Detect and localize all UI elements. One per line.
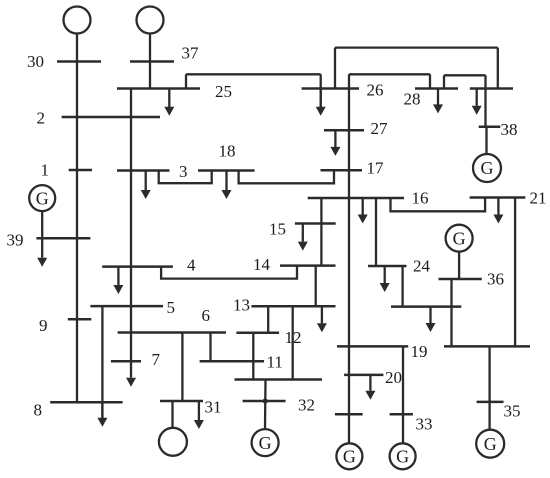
generator circle G32: [252, 429, 279, 456]
svg-text:4: 4: [187, 256, 196, 275]
wire 31 generator stem: [171, 401, 173, 428]
svg-text:7: 7: [152, 350, 161, 369]
svg-text:30: 30: [27, 52, 44, 71]
wire 28 riser: [443, 75, 445, 88]
svg-text:G: G: [343, 447, 356, 467]
bus 16 bar: [308, 197, 404, 200]
wire 25-26 horizontal: [186, 73, 321, 75]
wire 13-10 vertical: [292, 306, 294, 379]
load arrow at bus 18: [225, 171, 227, 191]
wire 22-35 vertical: [488, 346, 490, 429]
bus 20 bar: [344, 374, 383, 377]
svg-text:13: 13: [233, 296, 250, 315]
bus 26 bar: [302, 87, 359, 90]
bus 18 bar: [198, 169, 255, 172]
bus 7 bar: [111, 360, 141, 363]
bus 17 bar: [321, 169, 363, 172]
bus 15 bar: [295, 222, 336, 225]
wire 6-11 vertical: [209, 333, 211, 362]
svg-text:14: 14: [253, 255, 271, 274]
load arrow at bus 28: [437, 89, 439, 105]
bus 29 bar: [470, 87, 513, 90]
load arrow at bus 39: [41, 238, 43, 257]
bus 6 bar: [118, 331, 226, 334]
svg-text:19: 19: [411, 342, 428, 361]
load arrow at bus 4: [117, 267, 119, 285]
load arrow at bus 3: [145, 171, 147, 191]
generator circle G36: [446, 225, 473, 252]
svg-text:33: 33: [416, 415, 433, 434]
bus 11 bar: [200, 360, 265, 363]
svg-text:5: 5: [167, 298, 176, 317]
bus 3 bar: [117, 169, 170, 172]
generator circle at bus 37: [137, 7, 164, 34]
wire 30-2-1-39-9-8 vertical: [76, 34, 78, 403]
load arrow at bus 27: [334, 130, 336, 147]
svg-text:3: 3: [179, 162, 188, 181]
generator circle G35: [476, 430, 504, 458]
generator circle G39: [29, 185, 55, 211]
svg-text:18: 18: [219, 142, 236, 161]
bus 37 bar: [130, 60, 174, 63]
wire 5-8 vertical: [101, 306, 103, 418]
svg-text:G: G: [484, 434, 497, 454]
bus 38 transformer bar: [479, 125, 501, 128]
svg-text:35: 35: [504, 402, 521, 421]
svg-text:24: 24: [413, 257, 431, 276]
wire 14-13 vertical: [315, 266, 317, 307]
junction dot on bus 32 bar: [263, 398, 268, 403]
svg-text:15: 15: [269, 220, 286, 239]
bus 36 transformer bar: [439, 278, 482, 281]
wire 13-12 vertical: [267, 306, 269, 333]
svg-text:6: 6: [202, 306, 211, 325]
svg-text:17: 17: [367, 159, 385, 178]
wire 26 drop with load: [320, 74, 322, 107]
wire 29-38 vertical: [484, 75, 486, 126]
bus 35 transformer bar: [477, 401, 504, 404]
wire 24-23 vertical: [401, 266, 403, 307]
wire 26-28 horizontal: [349, 73, 430, 75]
wire 6-31 vertical: [181, 333, 183, 402]
generator circle G34: [336, 443, 362, 469]
generator circle at bus 31: [159, 428, 187, 456]
wire 26-27-17-16-19-20-34 long vertical: [348, 74, 350, 443]
bus 28 bar: [415, 87, 458, 90]
bus 2 bar: [62, 116, 160, 119]
load arrow at bus 8: [101, 402, 103, 418]
svg-text:G: G: [36, 188, 49, 208]
bus 30 bar: [57, 60, 101, 63]
bus 14 bar: [280, 264, 336, 267]
svg-text:31: 31: [205, 398, 222, 417]
wire 36-23-22 vertical: [450, 279, 452, 346]
bus 23 bar: [391, 305, 461, 308]
svg-text:1: 1: [41, 161, 50, 180]
bus 19 bar: [337, 345, 408, 348]
wire 36 generator stem: [458, 252, 460, 279]
wire 29 drop: [497, 48, 499, 89]
wire 16-21 connector: [391, 198, 486, 212]
bus 39 bar: [36, 237, 90, 240]
svg-text:G: G: [259, 433, 272, 453]
svg-text:G: G: [396, 447, 409, 467]
wire 4-14 connector: [161, 266, 297, 279]
load arrow at bus 31: [198, 401, 200, 420]
svg-text:27: 27: [371, 119, 389, 138]
wire 37-25 vertical: [149, 34, 151, 89]
bus 12 bar: [236, 332, 279, 335]
bus 24 bar: [368, 265, 407, 268]
bus 33 transformer bar: [390, 413, 413, 416]
bus 34 transformer bar: [335, 413, 363, 416]
bus 31 transformer bar: [160, 400, 203, 403]
generator circle at bus 30: [64, 7, 91, 34]
svg-text:39: 39: [7, 231, 24, 250]
wire 38 generator stem: [485, 127, 487, 154]
svg-text:8: 8: [34, 401, 43, 420]
load arrow at bus 26: [320, 89, 322, 108]
svg-text:12: 12: [285, 328, 302, 347]
load arrow at bus 23: [429, 307, 431, 324]
wire 18-17 connector: [239, 170, 334, 183]
wire 21-22 vertical: [514, 198, 516, 347]
wire 12-11-10 vertical: [252, 333, 254, 380]
svg-text:16: 16: [412, 189, 429, 208]
wire 16-15-14 vertical: [320, 198, 322, 266]
wire 25 riser: [185, 74, 187, 88]
wire 28-29 horizontal: [444, 74, 486, 76]
svg-text:38: 38: [501, 120, 518, 139]
load arrow at bus 7: [130, 361, 132, 377]
svg-text:25: 25: [215, 82, 232, 101]
svg-text:G: G: [453, 228, 466, 248]
wire 25-2-3-4-5-6-7 vertical: [130, 89, 132, 362]
load arrow at bus 24: [384, 266, 386, 283]
bus 4 bar: [102, 265, 173, 268]
svg-text:28: 28: [404, 90, 421, 109]
svg-text:26: 26: [367, 81, 384, 100]
bus 32 transformer bar: [243, 400, 286, 403]
svg-text:9: 9: [39, 316, 48, 335]
bus 13 bar: [251, 305, 335, 308]
bus 1 bar: [69, 169, 92, 172]
load arrow at bus 20: [369, 375, 371, 391]
svg-text:G: G: [481, 158, 494, 178]
load arrow at bus 16: [362, 198, 364, 215]
wire 28 drop: [429, 74, 431, 88]
wire 3-18 connector: [159, 171, 212, 184]
svg-text:21: 21: [530, 189, 547, 208]
wire 19-33 vertical: [402, 346, 404, 443]
load arrow at bus 15: [302, 224, 304, 242]
bus 5 bar: [90, 305, 163, 308]
generator circle G33: [390, 443, 416, 469]
generator circle G38: [473, 154, 501, 182]
bus 22 bar: [444, 345, 530, 348]
svg-text:37: 37: [182, 44, 200, 63]
svg-text:36: 36: [487, 270, 504, 289]
load arrow at bus 21: [497, 198, 499, 215]
bus 8 bar: [50, 401, 122, 404]
wire 10-32 stem: [264, 380, 267, 430]
bus 27 bar: [324, 129, 364, 132]
bus 21 bar: [470, 196, 526, 199]
load arrow at bus 25: [168, 89, 170, 108]
svg-text:20: 20: [385, 368, 402, 387]
svg-text:11: 11: [267, 353, 283, 372]
bus 10 bar: [235, 378, 323, 381]
bus 25 bar: [117, 87, 200, 90]
wire 39 generator stem: [41, 211, 43, 238]
svg-text:2: 2: [37, 109, 46, 128]
wire 26 riser to top: [334, 48, 336, 89]
wire 16-24 vertical: [375, 198, 377, 267]
load arrow at bus 13: [321, 306, 323, 323]
bus 9 bar: [68, 318, 92, 321]
wire 26-29 top horizontal: [335, 46, 498, 48]
svg-text:32: 32: [298, 396, 315, 415]
load arrow at bus 29: [476, 89, 478, 106]
